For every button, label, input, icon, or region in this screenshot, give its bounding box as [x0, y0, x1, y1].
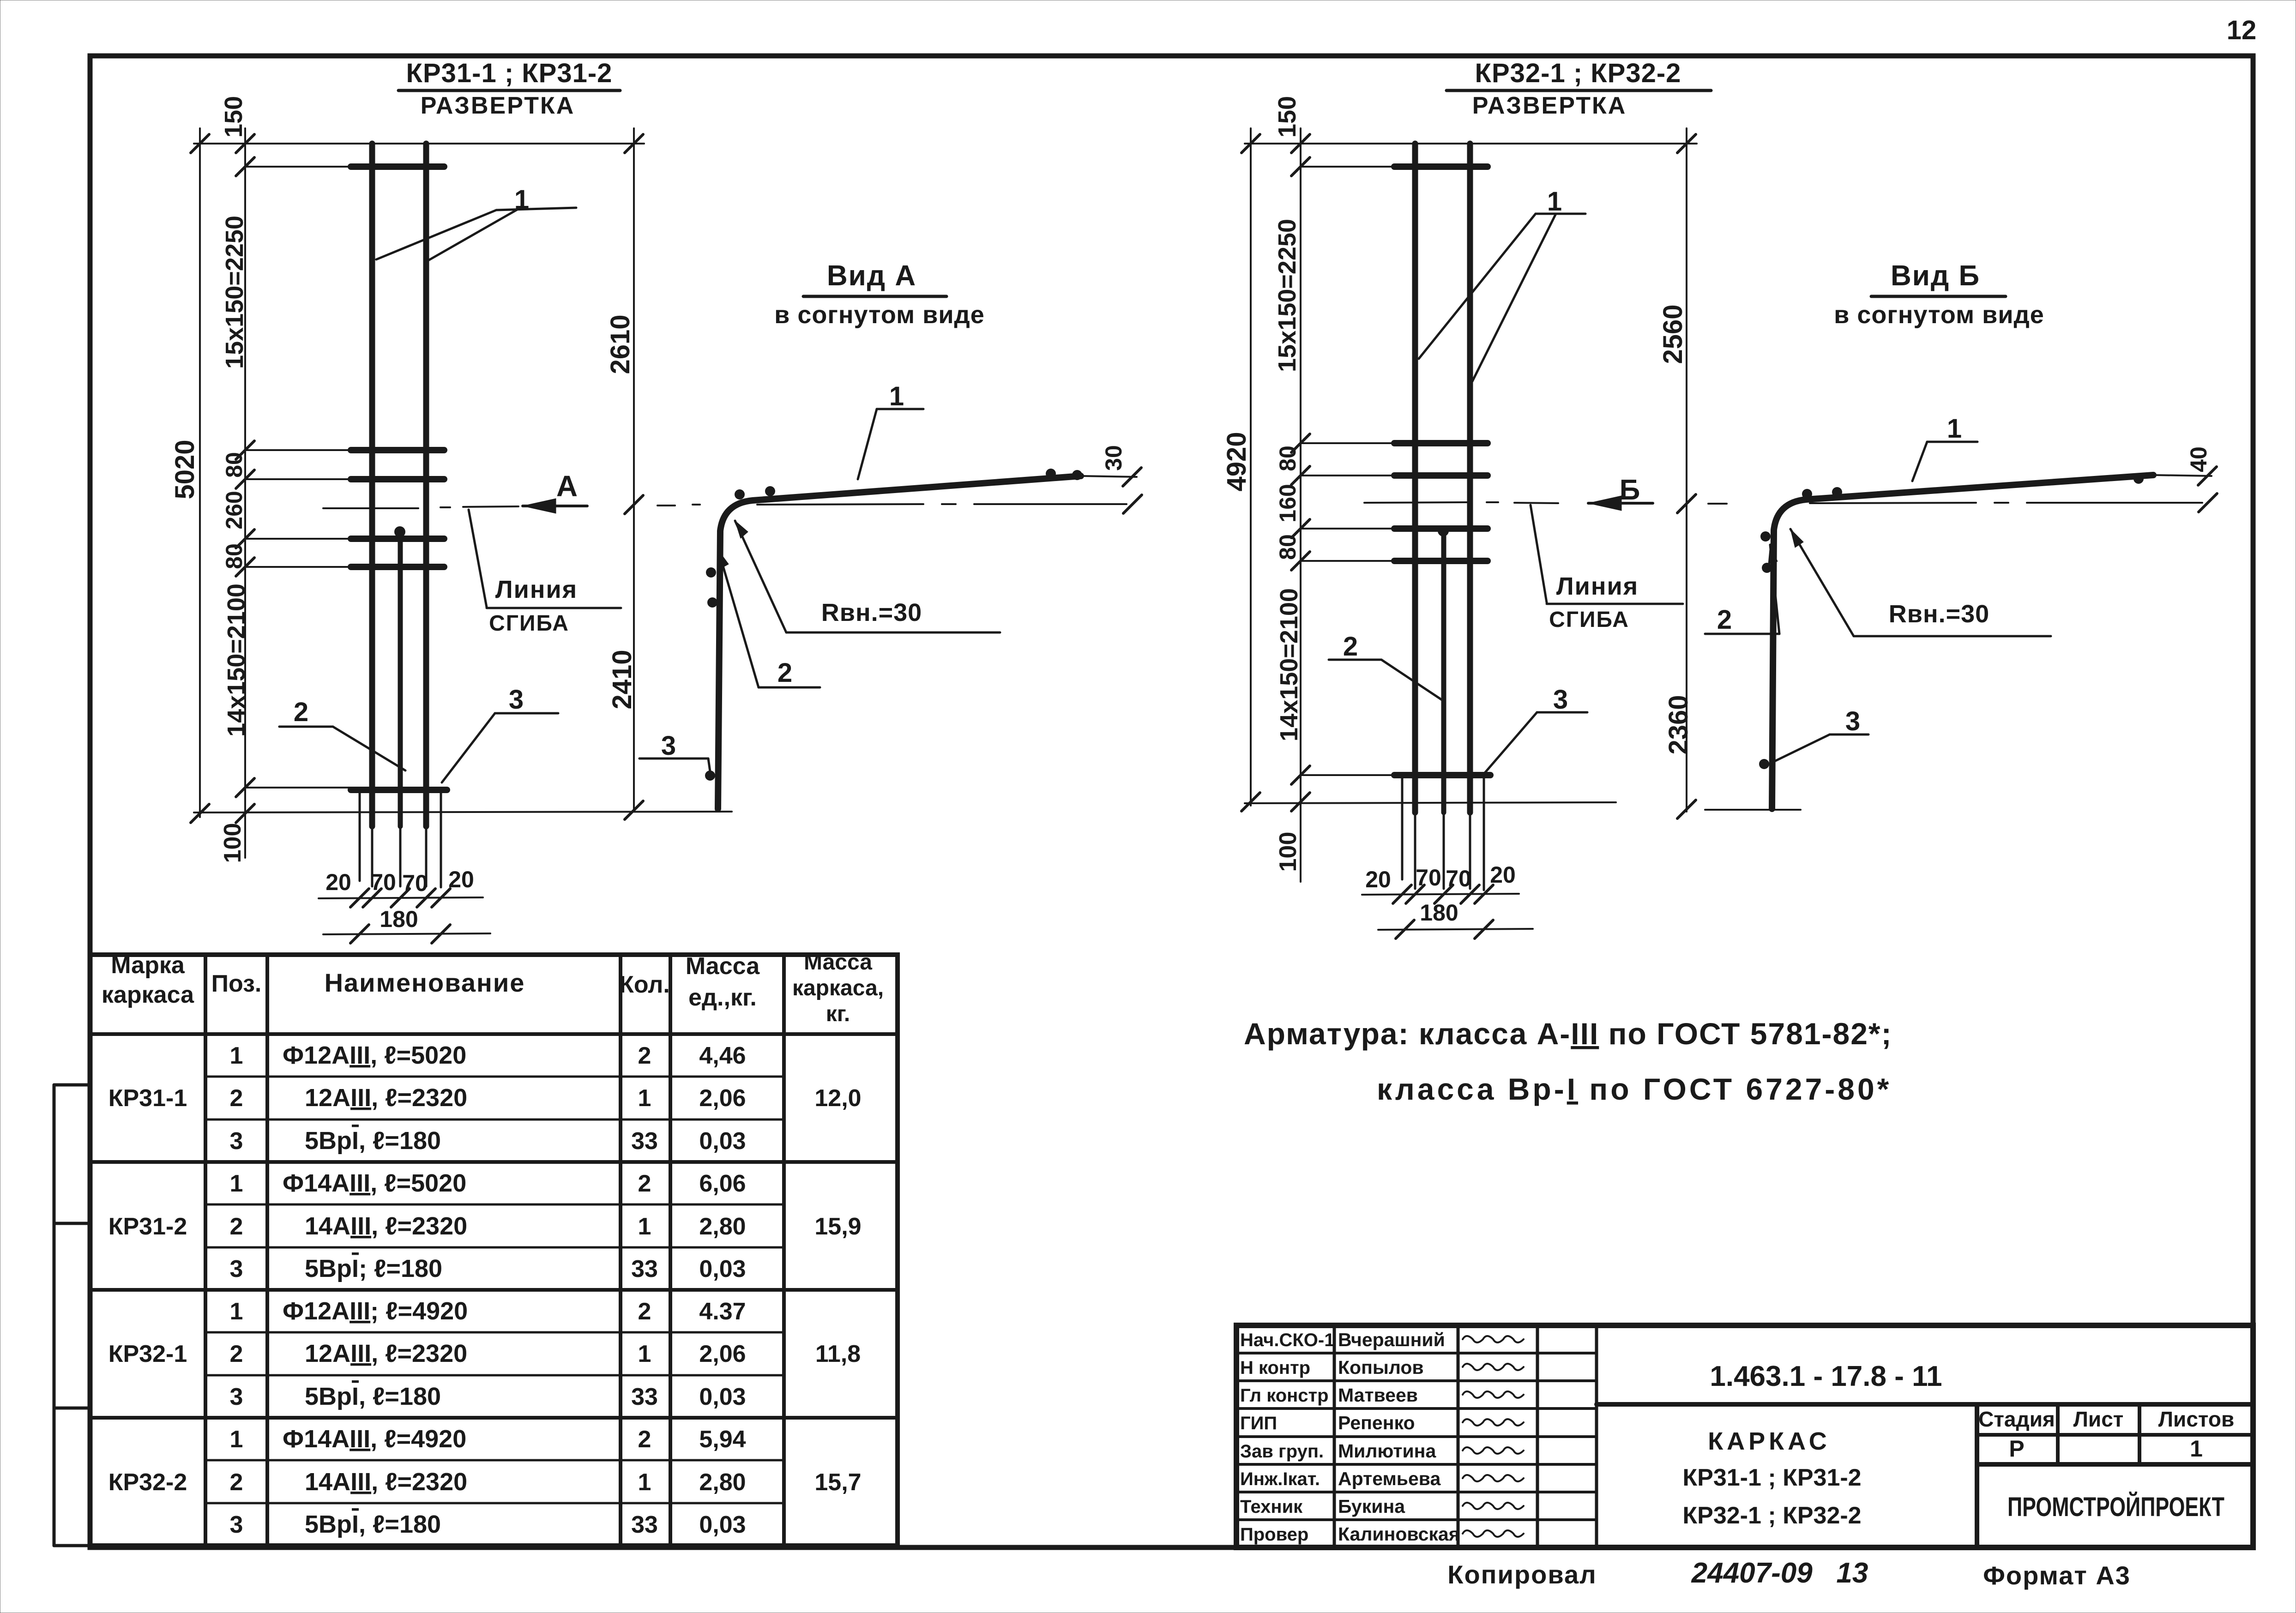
svg-text:3: 3	[230, 1256, 243, 1282]
svg-text:1: 1	[230, 1042, 243, 1069]
svg-text:2: 2	[230, 1469, 243, 1496]
rebar poz1 right bar (l=5020)	[423, 144, 429, 826]
svg-text:1: 1	[230, 1170, 243, 1197]
table verticals	[204, 955, 207, 1546]
svg-text:3: 3	[661, 731, 676, 761]
axis continuation to view A	[657, 505, 675, 506]
svg-text:2: 2	[638, 1426, 651, 1453]
svg-text:30: 30	[1101, 445, 1127, 471]
svg-text:2: 2	[230, 1341, 243, 1367]
svg-text:2: 2	[230, 1213, 243, 1240]
extension lines (right view)	[1301, 166, 1409, 168]
svg-text:12АIII, ℓ=2320: 12АIII, ℓ=2320	[305, 1084, 467, 1112]
svg-text:2: 2	[638, 1170, 651, 1197]
svg-text:2: 2	[1717, 605, 1732, 635]
svg-text:14АIII, ℓ=2320: 14АIII, ℓ=2320	[305, 1212, 467, 1240]
svg-text:3: 3	[1845, 706, 1860, 736]
svg-text:Ф12АIII, ℓ=5020: Ф12АIII, ℓ=5020	[283, 1041, 466, 1069]
svg-text:Н контр: Н контр	[1240, 1358, 1310, 1378]
vertical divider middle/right	[1975, 1404, 1979, 1547]
binding tab marks	[54, 1083, 90, 1087]
svg-text:5ВрI, ℓ=180: 5ВрI, ℓ=180	[305, 1383, 441, 1410]
svg-text:Репенко: Репенко	[1338, 1412, 1415, 1433]
weld dots (view A)	[735, 489, 745, 500]
svg-text:Лист: Лист	[2073, 1407, 2124, 1431]
svg-text:Копировал: Копировал	[1447, 1560, 1597, 1589]
svg-text:1: 1	[638, 1469, 651, 1496]
svg-text:Марка: Марка	[111, 952, 185, 979]
svg-text:70: 70	[1416, 865, 1441, 891]
svg-text:5020: 5020	[170, 439, 200, 499]
svg-text:ед.,кг.: ед.,кг.	[688, 984, 757, 1011]
svg-text:Р: Р	[2009, 1436, 2024, 1462]
svg-text:СГИБА: СГИБА	[489, 611, 569, 636]
svg-text:1: 1	[638, 1085, 651, 1112]
dim line 5020 (left view)	[199, 128, 201, 817]
svg-text:каркаса,: каркаса,	[792, 976, 884, 1000]
svg-text:1: 1	[1947, 414, 1962, 444]
svg-text:24407-09 13: 24407-09 13	[1691, 1557, 1868, 1589]
svg-text:Листов: Листов	[2158, 1407, 2234, 1431]
svg-text:Масса: Масса	[686, 953, 760, 980]
svg-text:33: 33	[631, 1511, 658, 1538]
svg-text:Вчерашний: Вчерашний	[1338, 1329, 1445, 1350]
svg-text:РАЗВЕРТКА: РАЗВЕРТКА	[1472, 92, 1627, 119]
svg-text:0,03: 0,03	[699, 1384, 746, 1410]
svg-text:4.37: 4.37	[699, 1298, 746, 1325]
svg-text:2410: 2410	[607, 650, 637, 709]
svg-text:КР31-1 ; КР31-2: КР31-1 ; КР31-2	[406, 58, 613, 88]
svg-text:3: 3	[230, 1384, 243, 1410]
svg-text:33: 33	[631, 1128, 658, 1155]
svg-text:100: 100	[1275, 832, 1302, 872]
svg-text:Арматура: класса А-III по ГОСТ: Арматура: класса А-III по ГОСТ 5781-82*;	[1244, 1017, 1892, 1051]
fold dash-dot line (right view)	[1364, 502, 1468, 503]
svg-text:40: 40	[2186, 446, 2212, 472]
svg-text:КР31-2: КР31-2	[108, 1213, 187, 1240]
rebar poz2 middle bar (l=2320)	[398, 531, 403, 826]
table group boundary lines	[90, 1160, 898, 1164]
bottom tie box (left view)	[359, 790, 361, 881]
table header bottom	[90, 1032, 898, 1036]
title block verticals (signature columns)	[1333, 1325, 1336, 1547]
svg-text:КР32-1: КР32-1	[108, 1341, 187, 1367]
axis dash-dot (view B)	[1810, 503, 1976, 503]
svg-text:КР32-1 ; КР32-2: КР32-1 ; КР32-2	[1682, 1502, 1861, 1529]
bottom extension line (left view)	[194, 812, 732, 813]
svg-text:Rвн.=30: Rвн.=30	[1889, 600, 1989, 628]
svg-text:150: 150	[220, 96, 247, 138]
dim chain line (right view)	[1300, 128, 1302, 882]
section arrow A	[523, 505, 587, 507]
svg-text:КР32-1 ; КР32-2: КР32-1 ; КР32-2	[1475, 58, 1681, 88]
svg-text:2560: 2560	[1658, 304, 1688, 364]
svg-text:2: 2	[294, 697, 308, 727]
svg-text:5ВрI, ℓ=180: 5ВрI, ℓ=180	[305, 1127, 441, 1155]
svg-text:70: 70	[370, 869, 396, 895]
svg-text:3: 3	[230, 1128, 243, 1155]
svg-text:1: 1	[638, 1213, 651, 1240]
svg-text:80: 80	[1275, 445, 1301, 471]
fold dash-dot line (left view)	[323, 507, 418, 509]
svg-text:КР31-1: КР31-1	[108, 1085, 187, 1112]
svg-text:2360: 2360	[1663, 695, 1693, 754]
svg-text:Гл констр: Гл констр	[1240, 1385, 1329, 1406]
dim ticks (right view)	[1241, 134, 1260, 153]
rebar poz1 right bar (right view)	[1467, 144, 1473, 813]
svg-text:Ф14АIII, ℓ=5020: Ф14АIII, ℓ=5020	[283, 1169, 466, 1197]
svg-text:33: 33	[631, 1384, 658, 1410]
svg-text:1: 1	[2190, 1436, 2203, 1462]
svg-text:33: 33	[631, 1256, 658, 1282]
svg-text:80: 80	[221, 543, 247, 569]
svg-text:Стадия: Стадия	[1978, 1407, 2055, 1431]
bent bar poz1+poz2 (view B)	[1772, 475, 2153, 809]
svg-text:15,9: 15,9	[814, 1213, 861, 1240]
title block outer	[1236, 1325, 2253, 1547]
svg-text:14х150=2100: 14х150=2100	[1275, 588, 1303, 741]
svg-text:180: 180	[380, 906, 418, 932]
svg-text:0,03: 0,03	[699, 1511, 746, 1538]
svg-text:1.463.1 - 17.8 - 11: 1.463.1 - 17.8 - 11	[1710, 1360, 1942, 1392]
svg-text:ГИП: ГИП	[1240, 1413, 1277, 1433]
cross ties poz3 (right view)	[1394, 163, 1488, 170]
rebar poz1 left bar (l=5020)	[369, 144, 375, 826]
extension lines (left view)	[245, 166, 356, 168]
dim chain line (left view)	[244, 128, 246, 858]
dim line 20-70-70-20 (left view)	[319, 897, 483, 898]
svg-text:Кол.: Кол.	[619, 971, 670, 998]
svg-text:11,8: 11,8	[815, 1341, 861, 1367]
svg-text:Провер: Провер	[1240, 1524, 1308, 1545]
bottom extension at leg (view B)	[1705, 809, 1801, 811]
svg-text:Калиновская: Калиновская	[1338, 1523, 1460, 1545]
svg-text:160: 160	[1275, 484, 1301, 522]
svg-text:ПРОМСТРОЙПРОЕКТ: ПРОМСТРОЙПРОЕКТ	[2007, 1492, 2224, 1522]
extension at right end (view B)	[2153, 475, 2212, 476]
axis continuation to view B	[1708, 503, 1727, 505]
svg-text:6,06: 6,06	[699, 1170, 746, 1197]
svg-text:Rвн.=30: Rвн.=30	[821, 599, 922, 626]
svg-text:Букина: Букина	[1338, 1496, 1405, 1517]
svg-text:КР31-1 ; КР31-2: КР31-1 ; КР31-2	[1682, 1464, 1861, 1491]
svg-text:0,03: 0,03	[699, 1128, 746, 1155]
svg-text:2: 2	[638, 1298, 651, 1325]
svg-text:Нач.СКО-1: Нач.СКО-1	[1240, 1330, 1334, 1350]
leader line of fold (right)	[1531, 505, 1547, 602]
svg-text:Ф12АIII; ℓ=4920: Ф12АIII; ℓ=4920	[283, 1297, 468, 1325]
dim ticks (left view)	[191, 134, 209, 153]
svg-text:Вид А: Вид А	[827, 260, 916, 292]
cross ties poz3 (left view)	[351, 163, 444, 170]
svg-text:Инж.Iкат.: Инж.Iкат.	[1240, 1469, 1320, 1489]
svg-text:Ф14АIII, ℓ=4920: Ф14АIII, ℓ=4920	[283, 1425, 466, 1453]
svg-text:Формат А3: Формат А3	[1983, 1561, 2131, 1590]
svg-text:Вид Б: Вид Б	[1891, 260, 1980, 292]
dim line 180 (left view)	[323, 933, 490, 934]
rebar poz1 left bar (right view)	[1412, 144, 1418, 813]
svg-text:КАРКАС: КАРКАС	[1708, 1427, 1831, 1455]
svg-text:12: 12	[2227, 15, 2257, 45]
svg-text:Артемьева: Артемьева	[1338, 1468, 1441, 1489]
bottom tie box (right view)	[1401, 775, 1404, 879]
svg-text:80: 80	[221, 452, 247, 478]
svg-text:80: 80	[1275, 534, 1301, 560]
svg-text:кг.: кг.	[826, 1002, 850, 1026]
svg-text:2: 2	[777, 658, 792, 688]
dim line 4920 (right view)	[1250, 128, 1252, 806]
svg-text:2,06: 2,06	[699, 1341, 746, 1367]
svg-text:4,46: 4,46	[699, 1042, 746, 1069]
table sub-row lines	[205, 1076, 784, 1078]
line under doc number	[1597, 1402, 2253, 1407]
svg-text:каркаса: каркаса	[102, 981, 194, 1008]
dim line 180 (right view)	[1378, 929, 1533, 930]
svg-text:2,80: 2,80	[699, 1213, 746, 1240]
svg-text:3: 3	[1553, 685, 1568, 715]
svg-text:1: 1	[1547, 187, 1562, 217]
bent bar poz1+poz2 (view A)	[718, 476, 1081, 809]
svg-text:2: 2	[230, 1085, 243, 1112]
svg-text:0,03: 0,03	[699, 1256, 746, 1282]
svg-text:100: 100	[219, 823, 246, 863]
svg-text:1: 1	[889, 381, 904, 411]
svg-text:12АIII, ℓ=2320: 12АIII, ℓ=2320	[305, 1340, 467, 1367]
svg-text:5,94: 5,94	[699, 1426, 746, 1453]
svg-text:2,80: 2,80	[699, 1469, 746, 1496]
stadiya list listov dividers	[2056, 1404, 2060, 1464]
svg-text:1: 1	[230, 1298, 243, 1325]
svg-text:класса Вр-I по ГОСТ 6727-80*: класса Вр-I по ГОСТ 6727-80*	[1377, 1072, 1892, 1106]
svg-text:в согнутом виде: в согнутом виде	[1834, 301, 2044, 329]
svg-text:Зав груп.: Зав груп.	[1240, 1441, 1324, 1462]
svg-text:Милютина: Милютина	[1338, 1440, 1436, 1462]
svg-text:1: 1	[230, 1426, 243, 1453]
svg-text:в согнутом виде: в согнутом виде	[774, 301, 985, 329]
svg-text:15х150=2250: 15х150=2250	[1273, 219, 1301, 372]
dim line 20-70-70-20 (right view)	[1362, 894, 1519, 895]
axis dash-dot (view A)	[757, 504, 923, 505]
section arrow B	[1588, 502, 1653, 505]
leader line of fold (left)	[469, 510, 487, 607]
svg-text:260: 260	[221, 491, 247, 529]
svg-text:2,06: 2,06	[699, 1085, 746, 1112]
svg-text:15,7: 15,7	[814, 1469, 861, 1496]
bottom cross tie poz3 (left view)	[351, 787, 447, 793]
svg-text:12,0: 12,0	[814, 1085, 861, 1112]
signature rows	[1236, 1352, 1597, 1354]
dim line 2610/2410 (view A)	[633, 128, 635, 812]
dim 40 (view B)	[2198, 467, 2217, 485]
top extension line (right view)	[1245, 143, 1697, 144]
svg-text:14х150=2100: 14х150=2100	[223, 584, 250, 737]
svg-text:Масса: Масса	[804, 950, 872, 975]
parts table outer	[90, 955, 898, 1546]
weld dots (view B)	[1802, 489, 1812, 499]
bottom extension line (right view)	[1245, 802, 1616, 803]
svg-text:Поз.: Поз.	[211, 970, 262, 997]
bottom cross tie poz3 (right view)	[1394, 772, 1490, 778]
top extension line (left view)	[194, 143, 644, 144]
svg-text:1: 1	[638, 1341, 651, 1367]
svg-text:Наименование: Наименование	[325, 968, 525, 997]
svg-text:5ВрI, ℓ=180: 5ВрI, ℓ=180	[305, 1511, 441, 1538]
svg-text:150: 150	[1273, 96, 1301, 138]
svg-text:15х150=2250: 15х150=2250	[221, 216, 248, 369]
rebar poz2 middle bar (right view)	[1441, 530, 1446, 813]
svg-text:Линия: Линия	[495, 576, 578, 603]
svg-text:КР32-2: КР32-2	[108, 1469, 187, 1496]
svg-text:2: 2	[1343, 632, 1358, 662]
svg-text:2: 2	[638, 1042, 651, 1069]
svg-text:180: 180	[1420, 900, 1458, 926]
svg-text:Б: Б	[1620, 474, 1640, 506]
svg-text:А: А	[556, 469, 578, 503]
svg-text:3: 3	[509, 685, 524, 715]
svg-text:Матвеев: Матвеев	[1338, 1384, 1418, 1406]
svg-text:2610: 2610	[605, 314, 635, 374]
svg-text:СГИБА: СГИБА	[1549, 608, 1629, 632]
svg-text:14АIII, ℓ=2320: 14АIII, ℓ=2320	[305, 1468, 467, 1496]
svg-text:3: 3	[230, 1511, 243, 1538]
dim line 2560/2360 (view B)	[1686, 128, 1687, 812]
extension at right end (view A)	[1081, 476, 1137, 477]
dim 30 (view A)	[1123, 468, 1141, 486]
svg-text:20: 20	[325, 869, 351, 895]
svg-text:20: 20	[448, 867, 474, 892]
svg-text:РАЗВЕРТКА: РАЗВЕРТКА	[421, 92, 575, 119]
svg-text:5ВрI; ℓ=180: 5ВрI; ℓ=180	[305, 1255, 442, 1282]
svg-text:Линия: Линия	[1556, 572, 1639, 600]
handwritten signatures	[1463, 1336, 1524, 1342]
svg-text:Техник: Техник	[1240, 1497, 1303, 1517]
svg-text:4920: 4920	[1222, 432, 1252, 491]
svg-text:Копылов: Копылов	[1338, 1357, 1424, 1378]
svg-text:20: 20	[1365, 867, 1391, 892]
